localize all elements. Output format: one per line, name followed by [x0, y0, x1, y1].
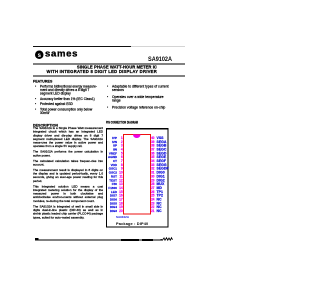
- pin 7 number: [115, 160, 123, 163]
- header top rule (dark left segment): [33, 46, 131, 47]
- pin 7 label CT: [107, 160, 118, 163]
- FEATURES heading: [33, 80, 52, 84]
- Package : DIP40 caption: [116, 221, 148, 226]
- pin 18 label DIG5: [107, 202, 118, 205]
- pin 36 number: [151, 152, 159, 155]
- rule below title: [33, 75, 185, 78]
- footer rule: [35, 239, 163, 242]
- pin 9 number: [115, 168, 123, 171]
- pin 40 label VSS: [157, 137, 170, 140]
- footer page mark (left blob): [35, 238, 39, 241]
- pin 39 number: [151, 141, 159, 144]
- features left column: [35, 85, 100, 115]
- pin 34 number: [151, 160, 159, 163]
- pin 39 label SEGA: [157, 141, 170, 144]
- pin 4 label IIN: [107, 149, 118, 152]
- pin 32 label SEGDP: [157, 168, 170, 171]
- part number SA9102A: [130, 55, 173, 63]
- pin 21 label NC: [157, 210, 170, 213]
- pin 1 number: [115, 137, 123, 140]
- pin 5 number: [115, 152, 123, 155]
- pin 24 label NC: [157, 198, 170, 201]
- pin 30 label DIG1: [157, 175, 170, 178]
- package name label (blue) under package: [116, 216, 129, 219]
- pin 14 number: [115, 187, 123, 190]
- pin 20 number: [115, 210, 123, 213]
- pin 15 number: [115, 191, 123, 194]
- pin 24 number: [151, 198, 159, 201]
- pin 22 label NC: [157, 206, 170, 209]
- pin 17 label DIG6: [107, 198, 118, 201]
- pin 3 label IIP: [107, 145, 118, 148]
- pin 10 label OSC2: [107, 172, 118, 175]
- pin 12 label TEST: [107, 179, 118, 182]
- pin 25 label TP2: [157, 195, 170, 198]
- pin 11 number: [115, 175, 123, 178]
- pin 17 number: [115, 198, 123, 201]
- title line 2: [33, 69, 157, 74]
- pin 29 number: [151, 179, 159, 182]
- pin 27 label MODE: [157, 187, 170, 190]
- DESCRIPTION heading: [33, 124, 58, 128]
- pin 16 label DIG7: [107, 195, 118, 198]
- diagram frame box: [106, 128, 169, 228]
- pin 29 label DIG2: [157, 179, 170, 182]
- pin 28 label MUX: [157, 183, 170, 186]
- pin 30 number: [151, 175, 159, 178]
- pin 14 label F1600: [107, 187, 118, 190]
- pin 32 number: [151, 168, 159, 171]
- package top index notch: [133, 134, 141, 138]
- pin 8 label VDD: [107, 164, 118, 167]
- pin 2 number: [115, 141, 123, 144]
- pin 16 number: [115, 195, 123, 198]
- pin 22 number: [151, 206, 159, 209]
- pin 5 label VREF: [107, 152, 118, 155]
- pin 37 label SEGC: [157, 149, 170, 152]
- pin 20 label DIG3: [107, 210, 118, 213]
- pin 10 number: [115, 172, 123, 175]
- description text: [33, 127, 103, 222]
- pin 35 number: [151, 156, 159, 159]
- pin 13 label F50: [107, 183, 118, 186]
- features right column: [107, 85, 185, 110]
- IC package outline (DIP40): [123, 134, 151, 215]
- pin 13 number: [115, 183, 123, 186]
- pin 28 number: [151, 183, 159, 186]
- pin 19 number: [115, 206, 123, 209]
- pin 1 label IVP: [107, 137, 118, 140]
- pin 21 number: [151, 210, 159, 213]
- pin 33 label SEGG: [157, 164, 170, 167]
- pin 38 number: [151, 145, 159, 148]
- pin 9 label OSC1: [107, 168, 118, 171]
- header top rule (light right segment): [131, 45, 185, 48]
- SAMES logo wordmark: [45, 49, 81, 59]
- footer thick segment 1: [121, 239, 139, 241]
- pin 4 number: [115, 149, 123, 152]
- pin 18 number: [115, 202, 123, 205]
- footer thick segment 2: [142, 239, 153, 241]
- pin 25 number: [151, 195, 159, 198]
- pin 31 label DIG0: [157, 172, 170, 175]
- title line 1: [33, 65, 157, 70]
- SAMES logo circle inner s: [37, 51, 43, 58]
- pin 6 number: [115, 156, 123, 159]
- pin 15 label LED: [107, 191, 118, 194]
- pin 27 number: [151, 187, 159, 190]
- pin 34 label SEGF: [157, 160, 170, 163]
- SAMES logo circle glyph: [35, 51, 44, 60]
- pin 19 label DIG4: [107, 206, 118, 209]
- pin 23 label NC: [157, 202, 170, 205]
- PIN CONNECTION DIAGRAM heading: [106, 120, 138, 125]
- pin 11 label RST: [107, 175, 118, 178]
- pin 23 number: [151, 202, 159, 205]
- pin 3 number: [115, 145, 123, 148]
- pin 38 label SEGB: [157, 145, 170, 148]
- pin 37 number: [151, 149, 159, 152]
- pin 26 number: [151, 191, 159, 194]
- pin 26 label TP1: [157, 191, 170, 194]
- pin 6 label AGND: [107, 156, 118, 159]
- footer handwritten squiggle: [160, 236, 174, 242]
- pin 31 number: [151, 172, 159, 175]
- pin 12 number: [115, 179, 123, 182]
- pin 2 label IVN: [107, 141, 118, 144]
- pin 36 label SEGD: [157, 152, 170, 155]
- pin 8 number: [115, 164, 123, 167]
- pin 33 number: [151, 164, 159, 167]
- pin 40 number: [151, 137, 159, 140]
- rule below logo: [33, 63, 185, 66]
- pin 35 label SEGE: [157, 156, 170, 159]
